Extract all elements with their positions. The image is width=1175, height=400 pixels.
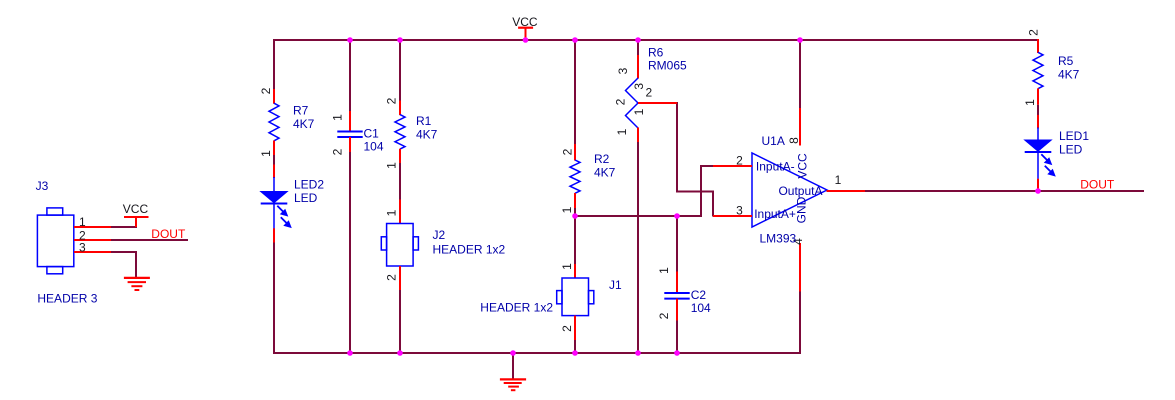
wire: node horizontal to pin2 <box>700 165 714 167</box>
svg-text:DOUT: DOUT <box>151 227 186 241</box>
resistor R1 <box>399 101 401 116</box>
wire: J1 pin2 to GND bus <box>574 340 576 354</box>
connector J3 body <box>37 215 73 267</box>
svg-text:2: 2 <box>1027 29 1041 36</box>
svg-text:1: 1 <box>259 150 273 157</box>
junction gnd/C2 <box>674 350 680 356</box>
pin J3.2 lead <box>74 239 112 241</box>
svg-text:1: 1 <box>331 114 345 121</box>
svg-text:OutputA: OutputA <box>778 184 822 198</box>
U1A pin4 GND lead <box>799 243 801 292</box>
wire: node to J1 pin1 <box>574 215 576 265</box>
LED2 light arrows <box>277 206 290 227</box>
svg-text:1: 1 <box>657 267 671 274</box>
svg-text:2: 2 <box>385 97 399 104</box>
ground symbol at J3 <box>124 277 150 279</box>
svg-text:1: 1 <box>79 215 86 229</box>
svg-text:J3: J3 <box>36 179 49 193</box>
svg-text:4K7: 4K7 <box>1058 67 1080 81</box>
svg-text:1: 1 <box>632 108 646 115</box>
wire: LED2 cathode to GND bus <box>273 242 275 354</box>
connector J2 <box>399 200 401 224</box>
svg-text:2: 2 <box>736 153 743 167</box>
svg-text:VCC: VCC <box>123 202 149 216</box>
svg-text:C1: C1 <box>364 126 380 140</box>
svg-text:HEADER 1x2: HEADER 1x2 <box>433 242 506 256</box>
junction gnd/R6 <box>635 350 641 356</box>
svg-text:1: 1 <box>1023 99 1037 106</box>
capacitor C1 <box>349 111 351 132</box>
resistor R7 <box>273 89 275 104</box>
junction bus/C1 <box>347 37 353 43</box>
wire: J3 pin2 DOUT stub <box>111 239 188 241</box>
svg-text:U1A: U1A <box>762 134 785 148</box>
wire: U1A pin4 to GND bus <box>799 291 801 354</box>
wire: bus to C1 pin1 <box>349 39 351 112</box>
svg-text:1: 1 <box>385 162 399 169</box>
svg-text:1: 1 <box>560 206 574 213</box>
svg-text:HEADER 1x2: HEADER 1x2 <box>480 301 553 315</box>
svg-text:LM393: LM393 <box>760 231 797 245</box>
wire: bus to ground symbol <box>512 353 514 379</box>
wire: C1 pin2 to GND bus <box>349 152 351 354</box>
wire: bus to R6 pin3 <box>637 39 639 56</box>
pin J3.1 lead <box>74 226 112 228</box>
svg-text:104: 104 <box>691 301 711 315</box>
wire: wiper drop to pin3 <box>712 191 714 217</box>
junction bus/R2 <box>572 37 578 43</box>
junction gnd/symbol <box>510 350 516 356</box>
svg-text:LED: LED <box>1059 143 1083 157</box>
junction gnd/J1 <box>572 350 578 356</box>
wire: bus to R2 pin2 <box>574 39 576 145</box>
wire: bus to R7 pin2 <box>273 39 275 90</box>
op-amp U1A LM393 <box>752 153 827 227</box>
wire: R2 pin1 to node <box>574 208 576 218</box>
wire: R1 pin1 to J2 pin1 <box>399 163 401 201</box>
power symbol VCC at J3 <box>135 217 137 227</box>
svg-text:2: 2 <box>614 98 628 105</box>
wire: DOUT net from output <box>864 190 1144 192</box>
junction bus/VCC <box>523 37 529 43</box>
svg-text:J1: J1 <box>609 278 622 292</box>
wire: node up segment to pin2 <box>700 165 702 217</box>
LED LED1 <box>1037 115 1039 129</box>
junction gnd/C1 <box>347 350 353 356</box>
pin J3.3 lead <box>74 251 112 253</box>
svg-text:J2: J2 <box>433 228 446 242</box>
svg-text:2: 2 <box>560 325 574 332</box>
svg-text:InputA-: InputA- <box>756 159 795 173</box>
wire: C2 pin2 to GND bus <box>676 320 678 354</box>
svg-text:R6: R6 <box>648 45 664 59</box>
svg-text:VCC: VCC <box>512 15 538 29</box>
junction DOUT/LED1 <box>1035 188 1041 194</box>
junction bus/R1 <box>397 37 403 43</box>
svg-text:4K7: 4K7 <box>293 117 315 131</box>
resistor R2 <box>574 144 576 161</box>
svg-text:HEADER 3: HEADER 3 <box>37 292 97 306</box>
wire: J2 pin2 to GND bus <box>399 290 401 354</box>
svg-text:3: 3 <box>79 240 86 254</box>
wire: bus corner to R5 <box>1037 39 1039 42</box>
wire: bus to U1A pin8 <box>799 39 801 108</box>
svg-text:LED1: LED1 <box>1059 129 1089 143</box>
svg-text:1: 1 <box>835 173 842 187</box>
R6 wiper lead <box>638 102 677 104</box>
svg-text:LED: LED <box>294 191 318 205</box>
junction node/R2-J1 <box>572 213 578 219</box>
wire: node to C2 pin1 <box>676 215 678 272</box>
potentiometer R6 <box>637 55 639 79</box>
U1A pin8 VCC lead <box>799 108 801 146</box>
svg-text:DOUT: DOUT <box>1080 177 1115 191</box>
wire: R6 wiper down segment <box>676 102 678 193</box>
svg-text:R1: R1 <box>416 114 432 128</box>
wire: J3 pin1 to VCC stub <box>111 226 137 228</box>
svg-text:4K7: 4K7 <box>594 165 616 179</box>
svg-text:GND: GND <box>795 196 809 223</box>
svg-text:R2: R2 <box>594 152 610 166</box>
wire: node line R2/J1/C2 to comparator <box>574 215 702 217</box>
LED1 light arrows <box>1041 154 1054 175</box>
wire: bus to R1 pin2 <box>399 39 401 101</box>
junction gnd/J2 <box>397 350 403 356</box>
LED LED2 <box>273 165 275 179</box>
wire: GND bottom bus <box>273 352 801 354</box>
wire: VCC top bus <box>273 39 1039 41</box>
wire: J3 pin3 horizontal <box>111 251 137 253</box>
svg-text:2: 2 <box>385 274 399 281</box>
capacitor C2 <box>676 272 678 294</box>
wire: R6 pin1 to GND bus <box>637 142 639 354</box>
U1A pin2 lead <box>713 165 752 167</box>
svg-text:4K7: 4K7 <box>416 128 438 142</box>
resistor R5 <box>1037 39 1039 53</box>
svg-text:RM065: RM065 <box>648 59 687 73</box>
svg-text:R7: R7 <box>293 104 309 118</box>
svg-text:2: 2 <box>331 148 345 155</box>
svg-text:1: 1 <box>385 209 399 216</box>
svg-text:104: 104 <box>364 140 384 154</box>
connector J1 <box>574 264 576 278</box>
U1A pin3 lead <box>713 215 752 217</box>
wire: wiper horizontal segment <box>676 191 714 193</box>
U1A pin1 output lead <box>827 190 866 192</box>
svg-text:3: 3 <box>632 83 646 90</box>
svg-text:InputA+: InputA+ <box>754 207 796 221</box>
wire: J3 pin3 down to ground <box>135 252 137 277</box>
svg-text:2: 2 <box>259 87 273 94</box>
junction bus/U1A pin8 <box>797 37 803 43</box>
svg-text:R5: R5 <box>1058 54 1074 68</box>
svg-text:2: 2 <box>646 86 653 100</box>
power symbol VCC top <box>525 28 527 40</box>
svg-text:1: 1 <box>560 263 574 270</box>
svg-text:2: 2 <box>657 312 671 319</box>
junction node/C2 <box>674 213 680 219</box>
svg-text:2: 2 <box>561 148 575 155</box>
svg-text:1: 1 <box>615 128 629 135</box>
svg-text:3: 3 <box>736 203 743 217</box>
wire: R5 pin1 to LED1 anode <box>1037 105 1039 116</box>
svg-text:8: 8 <box>787 137 801 144</box>
svg-text:3: 3 <box>616 67 630 74</box>
svg-text:VCC: VCC <box>796 153 810 179</box>
svg-text:LED2: LED2 <box>294 178 324 192</box>
junction bus/R6 <box>635 37 641 43</box>
svg-text:C2: C2 <box>691 288 707 302</box>
wire: R7 pin1 to LED2 anode <box>273 155 275 166</box>
